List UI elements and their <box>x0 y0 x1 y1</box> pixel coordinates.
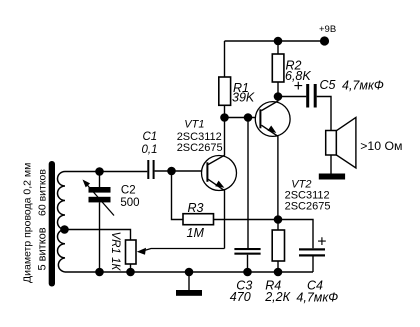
wire node R3/R4/C4/VT2 emitter <box>278 220 313 249</box>
svg-text:500: 500 <box>120 197 139 209</box>
junction dot VT1 collector <box>220 113 229 122</box>
capacitor C3 <box>234 248 260 272</box>
svg-text:5 витков: 5 витков <box>37 227 49 270</box>
junction dot coil tap <box>60 225 69 234</box>
wire C1 to VT1 base <box>155 170 207 172</box>
wire node to C5 <box>278 96 306 98</box>
svg-text:2,2К: 2,2К <box>264 290 290 304</box>
svg-text:4,7мкФ: 4,7мкФ <box>296 290 338 304</box>
capacitor C5 <box>306 84 317 108</box>
junction dot R4 bottom <box>274 268 283 277</box>
junction dot VT1 base node <box>167 167 176 176</box>
svg-text:Диаметр провода 0,2 мм: Диаметр провода 0,2 мм <box>22 163 34 283</box>
speaker <box>326 117 356 168</box>
svg-text:1M: 1M <box>187 226 205 240</box>
wire C5 to speaker <box>317 97 331 131</box>
wire top-left (coil top to C1) <box>65 171 147 173</box>
+9V terminal dot <box>320 36 329 45</box>
svg-text:2SC3112: 2SC3112 <box>177 131 222 143</box>
junction dot VT2 collector node <box>274 92 283 101</box>
svg-text:+: + <box>317 234 326 251</box>
svg-text:C2: C2 <box>121 185 136 197</box>
svg-text:0,1: 0,1 <box>142 144 158 156</box>
junction dot C2 top <box>95 167 104 176</box>
svg-text:60 витков: 60 витков <box>37 169 49 216</box>
svg-text:VT1: VT1 <box>184 118 204 130</box>
wire C3 branch vertical <box>247 118 249 249</box>
ground (speaker) <box>319 174 345 180</box>
svg-text:2SC2675: 2SC2675 <box>177 142 223 154</box>
variable resistor VR1 <box>126 240 225 272</box>
svg-text:>10 Ом: >10 Ом <box>360 139 402 153</box>
svg-text:39K: 39K <box>232 91 255 105</box>
wire speaker to ground <box>330 155 332 174</box>
resistor R2 <box>272 41 284 97</box>
capacitor C4 <box>299 248 325 272</box>
junction dot ground stub <box>185 268 194 277</box>
capacitor C1 <box>147 160 154 179</box>
junction dot C2 bottom <box>95 268 104 277</box>
svg-text:470: 470 <box>230 290 251 304</box>
transistor VT1 <box>202 118 237 249</box>
svg-text:+9В: +9В <box>319 24 336 35</box>
wire coil tap to VR1 <box>65 230 131 241</box>
svg-text:R3: R3 <box>188 201 204 215</box>
wire node VT1 collector to VT2 base <box>225 117 260 119</box>
wire ground stub <box>188 272 190 290</box>
svg-text:+: + <box>294 78 303 95</box>
ground (main) <box>176 290 202 296</box>
wire +9V rail <box>225 40 325 42</box>
wire bottom rail <box>65 271 313 273</box>
svg-text:2SC2675: 2SC2675 <box>285 201 331 213</box>
junction dot R2 top <box>274 37 283 46</box>
resistor R4 <box>272 220 284 273</box>
resistor R3 <box>172 171 279 225</box>
svg-text:4,7мкФ: 4,7мкФ <box>342 78 384 92</box>
transistor VT2 <box>255 97 290 220</box>
junction dot C3 branch <box>244 113 253 122</box>
capacitor C2 variable <box>83 172 115 273</box>
junction dot emitter node <box>274 215 283 224</box>
coil L1 winding 60 витков (upper) <box>58 172 65 230</box>
junction dot C3 bottom <box>243 268 252 277</box>
svg-text:C1: C1 <box>143 131 158 143</box>
svg-text:VR1 1К: VR1 1К <box>109 232 121 272</box>
junction dot VR1 bottom <box>126 268 135 277</box>
coil L1 ferrite core <box>49 161 55 287</box>
coil L1 winding 5 витков (lower) <box>58 230 65 273</box>
resistor R1 <box>219 41 231 118</box>
svg-text:C5: C5 <box>320 78 336 92</box>
